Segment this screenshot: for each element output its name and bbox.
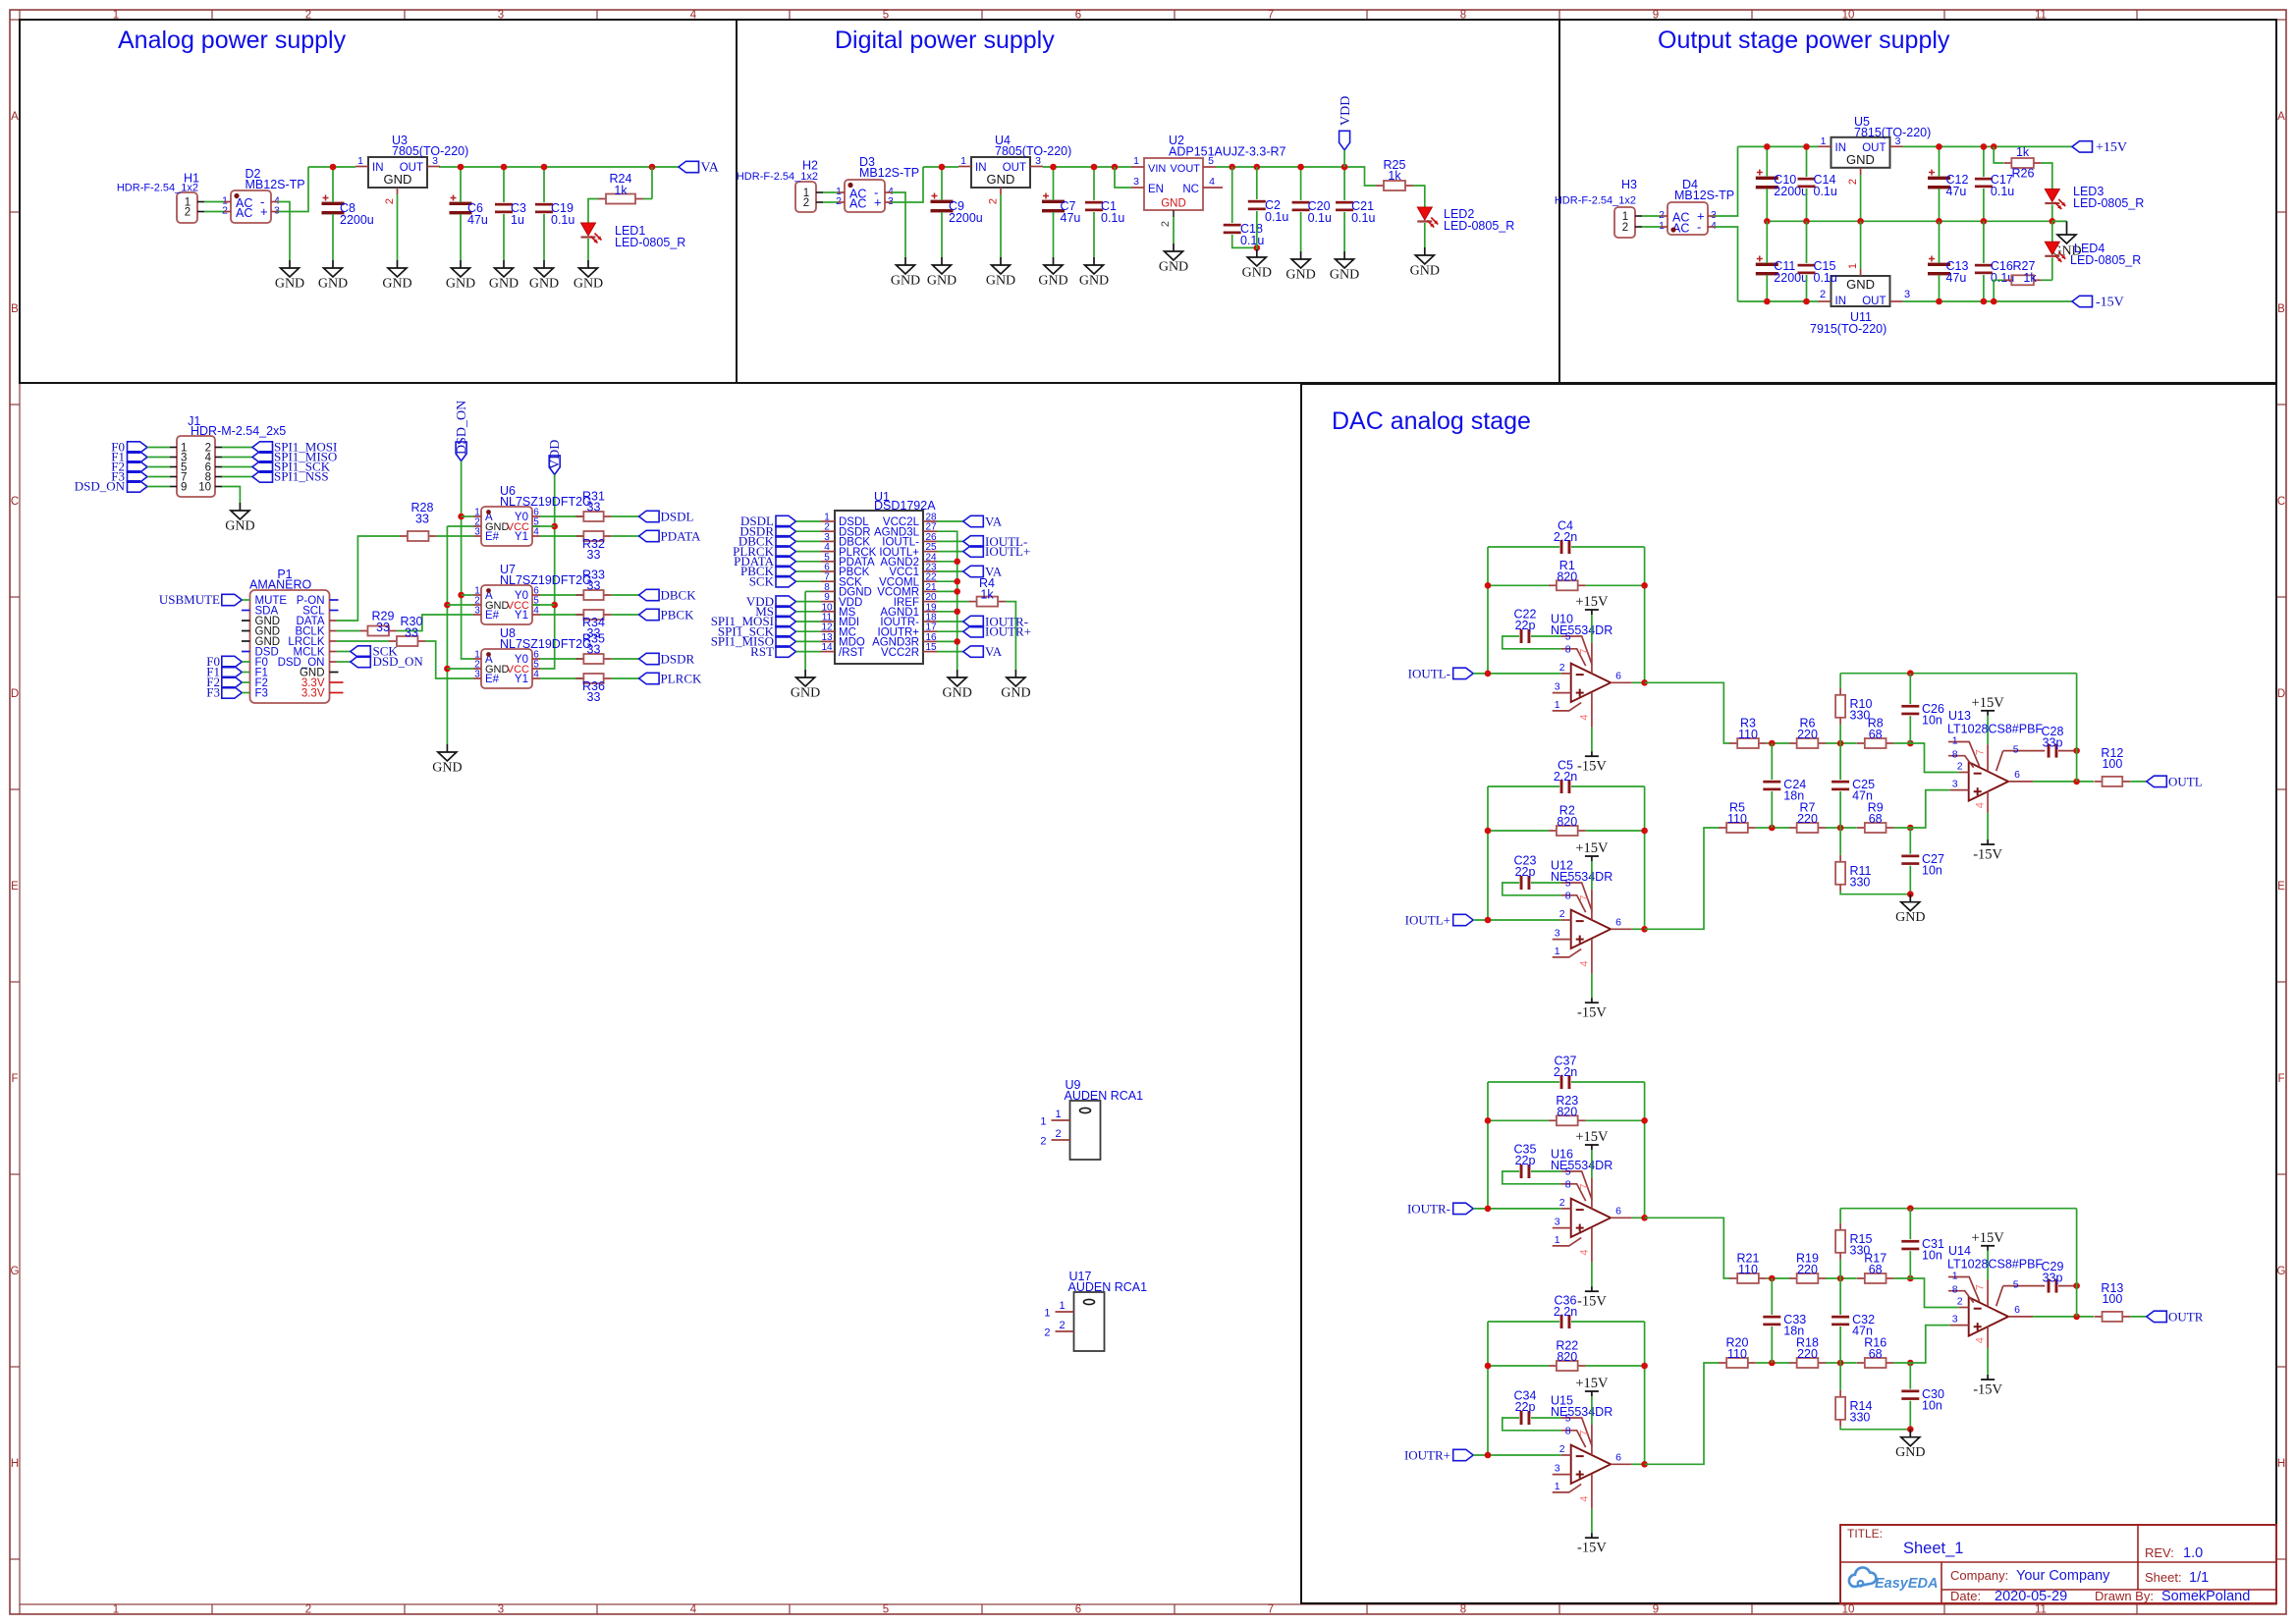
svg-text:7915(TO-220): 7915(TO-220) [1810, 322, 1886, 336]
svg-text:GND: GND [318, 277, 348, 292]
svg-text:NE5534DR: NE5534DR [1551, 1159, 1613, 1172]
svg-text:1k: 1k [2016, 145, 2030, 159]
svg-text:PDATA: PDATA [661, 529, 701, 544]
svg-text:SCK: SCK [749, 573, 775, 588]
svg-text:2020-05-29: 2020-05-29 [1995, 1589, 2067, 1604]
svg-text:2: 2 [185, 207, 191, 219]
svg-text:1: 1 [357, 155, 363, 167]
svg-text:B: B [11, 303, 19, 315]
svg-text:2: 2 [836, 195, 842, 207]
svg-text:A: A [11, 111, 19, 123]
svg-text:GND: GND [1038, 274, 1067, 289]
svg-text:68: 68 [1869, 1263, 1883, 1276]
svg-text:0.1u: 0.1u [1308, 211, 1332, 225]
svg-text:0.1u: 0.1u [1814, 185, 1837, 198]
svg-text:EN: EN [1148, 184, 1164, 195]
svg-text:3: 3 [474, 606, 480, 617]
svg-text:Y1: Y1 [515, 674, 528, 685]
svg-text:F3: F3 [206, 685, 220, 700]
svg-text:1/1: 1/1 [2189, 1570, 2209, 1586]
svg-text:-15V: -15V [1973, 847, 2002, 863]
svg-text:U13: U13 [1948, 709, 1971, 723]
svg-text:NE5534DR: NE5534DR [1551, 870, 1613, 884]
svg-text:GND: GND [986, 274, 1015, 289]
svg-text:1: 1 [1044, 1308, 1050, 1320]
svg-text:DSDR: DSDR [661, 652, 695, 667]
svg-text:220: 220 [1797, 812, 1818, 826]
svg-text:2: 2 [1847, 179, 1859, 185]
svg-text:2: 2 [1559, 1443, 1565, 1455]
svg-text:7815(TO-220): 7815(TO-220) [1854, 126, 1931, 139]
svg-text:AC: AC [236, 206, 252, 220]
svg-text:1: 1 [1952, 1271, 1958, 1282]
svg-text:7: 7 [1578, 1431, 1590, 1436]
svg-text:4: 4 [1578, 1496, 1590, 1502]
svg-text:47u: 47u [467, 213, 488, 227]
svg-text:LED-0805_R: LED-0805_R [615, 236, 685, 249]
svg-text:GND: GND [1895, 910, 1925, 925]
svg-text:9: 9 [181, 482, 187, 494]
svg-text:7: 7 [1975, 749, 1987, 755]
svg-text:5: 5 [883, 1604, 889, 1616]
svg-text:DBCK: DBCK [661, 588, 697, 603]
svg-text:GND: GND [225, 519, 254, 534]
svg-text:G: G [2277, 1266, 2286, 1277]
svg-text:3: 3 [1952, 1314, 1958, 1326]
svg-text:GND: GND [1001, 686, 1030, 701]
svg-text:C: C [11, 496, 19, 508]
svg-text:7: 7 [1578, 895, 1590, 901]
svg-text:GND: GND [446, 277, 475, 292]
svg-text:+15V: +15V [2096, 140, 2127, 155]
svg-text:GND: GND [987, 172, 1015, 187]
svg-text:EasyEDA: EasyEDA [1875, 1576, 1938, 1592]
svg-text:E#: E# [485, 674, 500, 685]
svg-text:+15V: +15V [1575, 594, 1609, 610]
svg-text:330: 330 [1850, 709, 1871, 723]
svg-text:1: 1 [1952, 735, 1958, 747]
svg-text:0.1u: 0.1u [1101, 211, 1124, 225]
svg-text:C: C [2277, 496, 2285, 508]
svg-text:LT1028CS8#PBF: LT1028CS8#PBF [1947, 723, 2043, 736]
svg-text:+15V: +15V [1575, 1376, 1609, 1391]
svg-text:68: 68 [1869, 1347, 1883, 1361]
svg-text:330: 330 [1850, 1411, 1871, 1425]
svg-text:4: 4 [1578, 1250, 1590, 1256]
svg-text:7805(TO-220): 7805(TO-220) [392, 144, 468, 158]
svg-text:-15V: -15V [2096, 296, 2124, 310]
svg-text:220: 220 [1797, 1347, 1818, 1361]
svg-text:Output stage power supply: Output stage power supply [1658, 27, 1950, 54]
svg-text:IN: IN [1835, 296, 1847, 307]
svg-text:33: 33 [415, 513, 429, 526]
svg-text:47u: 47u [1946, 185, 1967, 198]
svg-text:IOUTL+: IOUTL+ [985, 544, 1030, 559]
svg-text:47u: 47u [1946, 271, 1967, 285]
svg-text:NC: NC [1182, 184, 1199, 195]
svg-text:DSD_ON: DSD_ON [455, 401, 469, 455]
svg-text:2200u: 2200u [949, 211, 983, 225]
svg-text:IOUTR-: IOUTR- [1407, 1201, 1450, 1216]
svg-text:TITLE:: TITLE: [1847, 1527, 1883, 1541]
svg-text:AUDEN RCA1: AUDEN RCA1 [1065, 1089, 1144, 1103]
svg-text:GND: GND [1285, 268, 1315, 283]
svg-text:E: E [11, 881, 19, 893]
svg-text:10: 10 [198, 482, 211, 494]
svg-text:IOUTR+: IOUTR+ [1404, 1448, 1450, 1463]
svg-text:0.1u: 0.1u [551, 213, 574, 227]
svg-text:F: F [11, 1073, 18, 1085]
svg-text:3: 3 [1952, 779, 1958, 790]
svg-text:E: E [2277, 881, 2285, 893]
svg-text:Y1: Y1 [515, 610, 528, 622]
svg-text:DAC analog stage: DAC analog stage [1332, 407, 1531, 435]
svg-text:F3: F3 [255, 688, 268, 700]
svg-text:VCC2R: VCC2R [881, 647, 919, 659]
svg-text:8: 8 [1565, 1178, 1571, 1190]
svg-text:110: 110 [1727, 1347, 1747, 1361]
svg-text:SPI1_NSS: SPI1_NSS [274, 469, 329, 484]
svg-text:D3: D3 [859, 155, 875, 169]
svg-text:33: 33 [587, 579, 601, 593]
svg-text:D: D [11, 688, 19, 700]
svg-text:IOUTL-: IOUTL- [1408, 666, 1450, 680]
svg-text:1.0: 1.0 [2183, 1545, 2203, 1561]
svg-text:GND: GND [382, 277, 411, 292]
svg-text:1k: 1k [1388, 169, 1401, 183]
svg-text:IOUTL+: IOUTL+ [1405, 913, 1450, 928]
svg-text:R26: R26 [2012, 167, 2035, 181]
svg-text:7805(TO-220): 7805(TO-220) [995, 144, 1071, 158]
svg-text:USBMUTE: USBMUTE [159, 592, 220, 607]
svg-text:100: 100 [2102, 1292, 2122, 1306]
svg-text:4: 4 [533, 606, 539, 617]
svg-text:GND: GND [1895, 1445, 1925, 1460]
svg-text:-15V: -15V [1973, 1382, 2002, 1398]
svg-text:1: 1 [1059, 1300, 1065, 1312]
svg-text:22p: 22p [1515, 1154, 1536, 1167]
svg-text:SomekPoland: SomekPoland [2161, 1589, 2250, 1604]
svg-text:-15V: -15V [1577, 1005, 1607, 1021]
svg-text:3: 3 [1555, 928, 1560, 940]
svg-text:-15V: -15V [1577, 759, 1607, 775]
svg-text:15: 15 [925, 642, 937, 653]
svg-text:7: 7 [1578, 649, 1590, 655]
svg-text:8: 8 [1565, 1425, 1571, 1436]
svg-text:10n: 10n [1922, 1399, 1942, 1413]
svg-text:2.2n: 2.2n [1554, 770, 1577, 784]
svg-text:4: 4 [1209, 176, 1215, 188]
svg-text:GND: GND [1846, 277, 1875, 292]
svg-text:110: 110 [1738, 1263, 1758, 1276]
svg-text:HDR-F-2.54_1x2: HDR-F-2.54_1x2 [737, 171, 818, 183]
svg-text:LT1028CS8#PBF: LT1028CS8#PBF [1947, 1258, 2043, 1272]
svg-text:U14: U14 [1948, 1244, 1971, 1258]
svg-text:+15V: +15V [1972, 1230, 2005, 1246]
svg-text:DSD_ON: DSD_ON [373, 654, 424, 669]
svg-text:VDD: VDD [1339, 96, 1353, 126]
svg-text:OUTR: OUTR [2168, 1309, 2204, 1324]
svg-text:4: 4 [690, 1604, 697, 1616]
svg-text:GND: GND [927, 274, 957, 289]
svg-text:+15V: +15V [1575, 840, 1609, 856]
svg-text:LED-0805_R: LED-0805_R [2070, 253, 2141, 267]
svg-text:2: 2 [222, 205, 228, 217]
svg-text:1: 1 [1821, 135, 1827, 147]
svg-text:2: 2 [1059, 1320, 1065, 1331]
svg-text:B: B [2277, 303, 2285, 315]
svg-text:LED-0805_R: LED-0805_R [2073, 196, 2144, 210]
svg-text:3.3V: 3.3V [301, 688, 325, 700]
svg-text:110: 110 [1727, 812, 1747, 826]
svg-text:GND: GND [1410, 264, 1440, 279]
svg-text:330: 330 [1850, 1244, 1871, 1258]
svg-text:F: F [2277, 1073, 2284, 1085]
svg-text:2: 2 [1559, 662, 1565, 674]
svg-text:+: + [874, 195, 882, 210]
svg-text:E#: E# [485, 610, 500, 622]
svg-text:0.1u: 0.1u [1991, 185, 2014, 198]
svg-text:10n: 10n [1922, 864, 1942, 878]
svg-text:68: 68 [1869, 812, 1883, 826]
svg-text:GND: GND [529, 277, 559, 292]
svg-text:HDR-F-2.54_1x2: HDR-F-2.54_1x2 [1555, 195, 1636, 207]
svg-text:GND: GND [891, 274, 920, 289]
svg-text:10n: 10n [1922, 1249, 1942, 1263]
svg-text:NL7SZ19DFT2G: NL7SZ19DFT2G [500, 637, 592, 651]
svg-text:VA: VA [985, 644, 1003, 659]
svg-text:0.1u: 0.1u [1240, 234, 1264, 247]
svg-text:NE5534DR: NE5534DR [1551, 623, 1613, 637]
svg-text:GND: GND [1330, 268, 1359, 283]
svg-text:PLRCK: PLRCK [661, 672, 703, 686]
svg-text:Drawn By:: Drawn By: [2095, 1589, 2154, 1603]
svg-text:6: 6 [1615, 1451, 1621, 1463]
svg-text:Analog power supply: Analog power supply [118, 27, 347, 54]
svg-text:4: 4 [1711, 220, 1717, 232]
svg-text:820: 820 [1557, 1105, 1577, 1118]
svg-text:10: 10 [1842, 1604, 1855, 1616]
svg-text:VOUT: VOUT [1170, 163, 1200, 175]
svg-text:H: H [2277, 1458, 2285, 1470]
svg-text:-: - [1697, 220, 1701, 235]
svg-text:GND: GND [1159, 260, 1188, 275]
svg-text:PBCK: PBCK [661, 608, 695, 623]
svg-text:GND: GND [943, 686, 972, 701]
svg-text:IOUTR+: IOUTR+ [985, 624, 1031, 639]
svg-text:Y1: Y1 [515, 531, 528, 543]
svg-text:1k: 1k [980, 588, 994, 602]
svg-text:22p: 22p [1515, 1400, 1536, 1414]
svg-text:8: 8 [1952, 749, 1958, 761]
svg-text:+: + [260, 204, 268, 219]
svg-text:33: 33 [405, 626, 418, 640]
svg-text:5: 5 [2013, 1279, 2019, 1291]
svg-text:1: 1 [1040, 1116, 1046, 1128]
svg-text:IN: IN [975, 162, 987, 174]
svg-text:8: 8 [1460, 1604, 1466, 1616]
svg-text:DSD_ON: DSD_ON [75, 479, 126, 494]
svg-text:8: 8 [1565, 643, 1571, 655]
svg-text:2: 2 [305, 1604, 311, 1616]
svg-text:6: 6 [2014, 1304, 2020, 1316]
svg-text:3: 3 [1555, 1463, 1560, 1475]
svg-text:3: 3 [274, 205, 280, 217]
svg-text:AC: AC [849, 197, 866, 211]
svg-text:11: 11 [2035, 1604, 2047, 1616]
svg-text:2: 2 [1622, 222, 1628, 234]
svg-text:H3: H3 [1621, 178, 1637, 191]
svg-text:IN: IN [372, 162, 384, 174]
svg-text:DSD1792A: DSD1792A [874, 499, 936, 513]
svg-text:3: 3 [888, 195, 894, 207]
svg-text:6: 6 [1615, 1205, 1621, 1217]
svg-text:GND: GND [1161, 198, 1186, 210]
svg-text:6: 6 [1615, 916, 1621, 928]
svg-text:OUT: OUT [1862, 296, 1886, 307]
svg-text:2: 2 [988, 198, 1000, 204]
svg-text:3: 3 [474, 670, 480, 680]
svg-text:NL7SZ19DFT2G: NL7SZ19DFT2G [500, 573, 592, 587]
svg-text:ADP151AUJZ-3.3-R7: ADP151AUJZ-3.3-R7 [1169, 144, 1286, 158]
svg-text:3: 3 [1555, 681, 1560, 693]
svg-text:-15V: -15V [1577, 1541, 1607, 1556]
svg-text:LED-0805_R: LED-0805_R [1444, 219, 1514, 233]
svg-text:18n: 18n [1783, 789, 1804, 803]
svg-text:4: 4 [1975, 1337, 1987, 1343]
svg-text:2.2n: 2.2n [1554, 1065, 1577, 1079]
svg-text:3: 3 [474, 527, 480, 538]
svg-text:2: 2 [1957, 1296, 1963, 1308]
svg-text:GND: GND [1079, 274, 1109, 289]
svg-text:OUTL: OUTL [2168, 774, 2203, 788]
svg-text:Digital power supply: Digital power supply [835, 27, 1055, 54]
svg-text:VDD: VDD [548, 440, 563, 469]
svg-text:1: 1 [1847, 263, 1859, 269]
svg-text:0.1u: 0.1u [1351, 211, 1375, 225]
svg-text:22p: 22p [1515, 865, 1536, 879]
svg-text:2: 2 [1160, 221, 1172, 227]
svg-text:4: 4 [1578, 715, 1590, 721]
svg-text:+15V: +15V [1575, 1129, 1609, 1145]
svg-text:820: 820 [1557, 1350, 1577, 1364]
svg-text:2.2n: 2.2n [1554, 530, 1577, 544]
svg-text:D: D [2277, 688, 2285, 700]
svg-text:1: 1 [1555, 1234, 1560, 1246]
svg-text:820: 820 [1557, 569, 1577, 583]
svg-text:9: 9 [1653, 1604, 1659, 1616]
svg-text:33p: 33p [2043, 1272, 2063, 1285]
svg-text:+15V: +15V [1972, 695, 2005, 711]
svg-text:VA: VA [985, 514, 1003, 529]
svg-text:33: 33 [587, 501, 601, 514]
svg-text:GND: GND [791, 686, 820, 701]
svg-text:AUDEN RCA1: AUDEN RCA1 [1068, 1280, 1148, 1294]
svg-text:5: 5 [1208, 155, 1214, 167]
svg-text:1u: 1u [511, 213, 524, 227]
svg-text:2: 2 [1559, 1197, 1565, 1209]
svg-text:GND: GND [275, 277, 304, 292]
svg-text:VA: VA [701, 161, 720, 176]
svg-text:1k: 1k [2023, 271, 2037, 285]
svg-text:D2: D2 [246, 167, 261, 181]
svg-text:1k: 1k [614, 184, 628, 197]
svg-text:Company:: Company: [1950, 1568, 2008, 1583]
svg-text:Sheet_1: Sheet_1 [1903, 1540, 1963, 1557]
svg-text:820: 820 [1557, 815, 1577, 829]
svg-text:DSDL: DSDL [661, 510, 694, 524]
svg-text:AMANERO: AMANERO [249, 578, 311, 592]
svg-text:A: A [2277, 111, 2285, 123]
svg-text:0.1u: 0.1u [1814, 271, 1837, 285]
svg-text:4: 4 [1975, 802, 1987, 808]
svg-text:3: 3 [1904, 289, 1910, 300]
svg-text:6: 6 [1615, 670, 1621, 681]
svg-text:2: 2 [1559, 908, 1565, 920]
svg-text:22p: 22p [1515, 619, 1536, 632]
svg-text:/RST: /RST [839, 647, 864, 659]
svg-text:2: 2 [1040, 1136, 1046, 1148]
svg-text:6: 6 [1075, 1604, 1081, 1616]
svg-text:33: 33 [587, 548, 601, 562]
svg-text:2: 2 [803, 197, 809, 209]
svg-text:IN: IN [1835, 142, 1847, 154]
svg-text:Sheet:: Sheet: [2145, 1570, 2182, 1585]
svg-text:E#: E# [485, 531, 500, 543]
svg-text:33p: 33p [2043, 736, 2063, 750]
svg-text:1: 1 [1555, 1481, 1560, 1492]
svg-text:1: 1 [1555, 699, 1560, 711]
svg-text:47n: 47n [1852, 1325, 1873, 1338]
svg-text:14: 14 [821, 642, 833, 653]
svg-text:2: 2 [1055, 1128, 1061, 1140]
svg-text:220: 220 [1797, 728, 1818, 741]
svg-text:33: 33 [587, 643, 601, 657]
svg-text:-15V: -15V [1577, 1294, 1607, 1310]
svg-text:NE5534DR: NE5534DR [1551, 1405, 1613, 1419]
svg-text:GND: GND [489, 277, 519, 292]
svg-text:GND: GND [384, 172, 412, 187]
svg-text:2.2n: 2.2n [1554, 1305, 1577, 1319]
svg-text:1: 1 [1555, 946, 1560, 957]
svg-text:0.1u: 0.1u [1265, 210, 1288, 224]
svg-text:2: 2 [1957, 761, 1963, 773]
svg-text:2: 2 [1044, 1327, 1050, 1339]
svg-text:8: 8 [1565, 890, 1571, 901]
svg-text:1: 1 [1659, 220, 1665, 232]
svg-text:110: 110 [1738, 728, 1758, 741]
svg-text:4: 4 [533, 527, 539, 538]
svg-text:GND: GND [432, 761, 462, 776]
svg-text:6: 6 [2014, 769, 2020, 781]
svg-text:1: 1 [1133, 155, 1139, 167]
svg-text:GND: GND [1846, 152, 1875, 167]
svg-text:Your Company: Your Company [2016, 1568, 2110, 1584]
svg-text:2: 2 [1820, 289, 1826, 300]
svg-text:G: G [11, 1266, 20, 1277]
svg-text:68: 68 [1869, 728, 1883, 741]
svg-text:7: 7 [1975, 1284, 1987, 1290]
svg-text:7: 7 [1578, 1184, 1590, 1190]
svg-text:REV:: REV: [2145, 1545, 2174, 1560]
svg-text:GND: GND [1242, 266, 1272, 281]
svg-text:2200u: 2200u [340, 213, 374, 227]
svg-text:VIN: VIN [1148, 163, 1166, 175]
svg-text:33: 33 [376, 621, 390, 634]
svg-text:100: 100 [2102, 757, 2122, 771]
svg-text:220: 220 [1797, 1263, 1818, 1276]
svg-text:7: 7 [1268, 1604, 1274, 1616]
